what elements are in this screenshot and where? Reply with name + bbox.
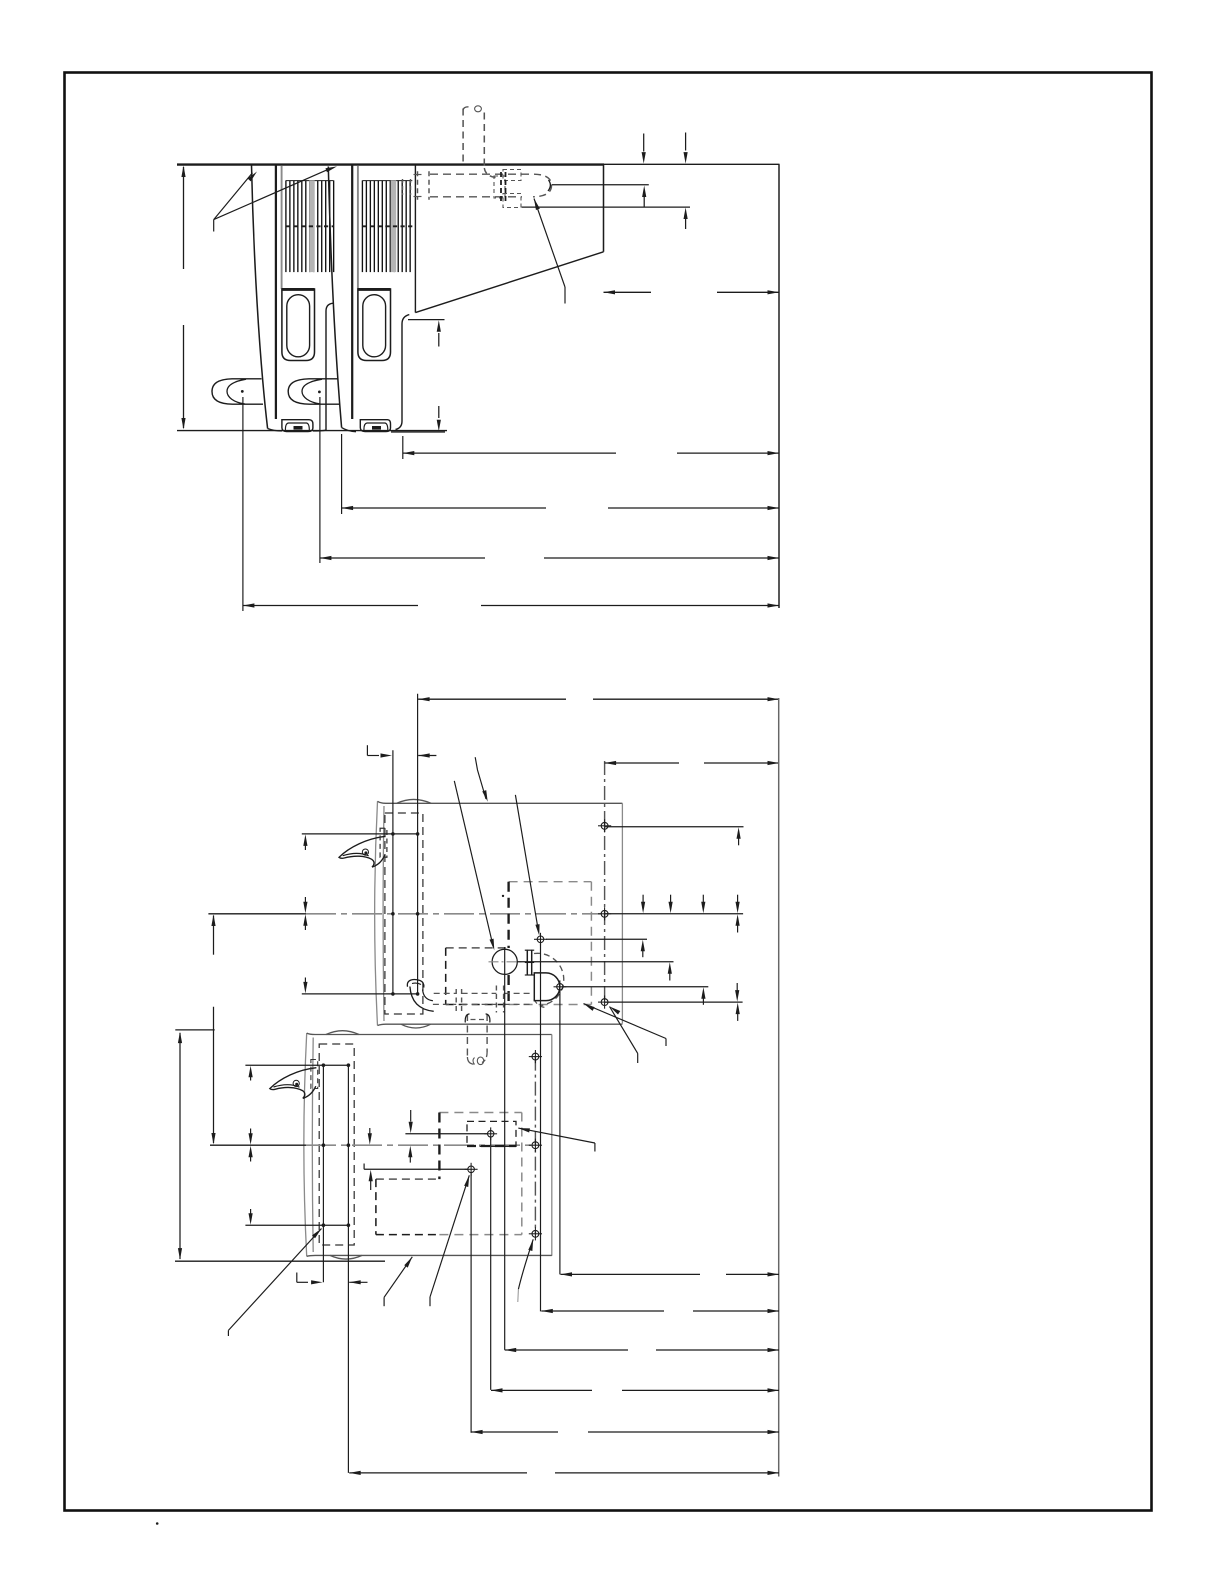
unit 2 lever pivots line (upper) bbox=[245, 1064, 348, 1066]
unit 2 plan bottom edge bbox=[307, 1254, 552, 1257]
leader arrows to both cooler tops bbox=[214, 173, 253, 220]
trap tailpipe hidden (dashed) below unit1 bbox=[466, 1014, 468, 1057]
tailpipe end fitting circles bbox=[473, 1058, 475, 1065]
cooler 1 push-pad recess outline bbox=[282, 289, 315, 361]
cooler 1 push-pad oval slot bbox=[287, 295, 310, 357]
unit 1 hood bump arc (top) bbox=[397, 799, 431, 803]
unit 2 plan outline left edge (curved) bbox=[304, 1033, 307, 1256]
depth dimension line 4 (cooler1 push-bar to wall) bbox=[243, 605, 418, 607]
cooler 1 panel edge line bbox=[275, 165, 277, 419]
leader to outlet box (from right) bbox=[518, 1128, 530, 1132]
bubbler height line (plan) bbox=[518, 961, 674, 963]
unit 1 lower access dashed rectangle bbox=[446, 947, 509, 949]
cooler 2 grille mid dashed line bbox=[363, 225, 413, 227]
cooler 2 push-pad recess outline bbox=[358, 289, 391, 361]
unit 2 horizontal centerline bbox=[210, 1144, 306, 1146]
supply tube left flange (dashed) bbox=[417, 171, 419, 199]
unit 1 lower pivot line bbox=[302, 993, 418, 995]
bottom dimension: water inlet to wall bbox=[541, 1310, 664, 1312]
unit 1 hood bump arc (bottom) bbox=[401, 1024, 431, 1028]
unit 2 mounting holes centerline (vertical dash-dot) bbox=[534, 1057, 536, 1234]
unit 2 back panel dashed rectangle bbox=[319, 1044, 354, 1245]
unit 1 bubbler body circle (plan) bbox=[492, 949, 517, 974]
bottom dimension: lever pivot to wall bbox=[349, 1472, 527, 1474]
arrow above lower pivot line bbox=[304, 978, 306, 985]
cooler 1 rear lower edge bbox=[326, 303, 333, 430]
extension line from water inlet down bbox=[540, 943, 542, 1311]
extension line from bubbler down bbox=[504, 947, 506, 1350]
riser pipe (hidden, dashed) above cooler bbox=[462, 109, 464, 163]
unit 2 lower pivot line bbox=[245, 1224, 348, 1226]
center-to-center vertical dimension bbox=[213, 916, 215, 955]
unit 1 horizontal centerline (dash-dot) bbox=[208, 913, 306, 915]
bottom dimension: outlet receptacle to wall bbox=[471, 1431, 558, 1433]
cabinet depth dimension line (upper right) bbox=[604, 291, 652, 293]
depth dimension line 1 (rear corner to wall) bbox=[403, 452, 616, 454]
water inlet height line bbox=[546, 938, 647, 940]
arrow above hole-bottom line bbox=[736, 983, 738, 992]
arrow above unit2 lower pivot line bbox=[250, 1209, 252, 1216]
outlet receptacle height line bbox=[364, 1168, 467, 1170]
cooler 2 rear cabinet edge vertical bbox=[414, 165, 416, 312]
water inlet hole bbox=[537, 936, 544, 943]
extension line from outlet box hole down bbox=[490, 1138, 492, 1390]
extension line from lever pivot B up bbox=[417, 694, 419, 994]
unit 2 plan right edge bbox=[551, 1035, 553, 1256]
unit 2 lower access dashed rectangle bbox=[376, 1178, 440, 1180]
cooler 2 cabinet sloped underside bbox=[415, 252, 603, 313]
floor/bottom reference line under coolers bbox=[177, 430, 447, 432]
leader to unit2 bottom mounting hole bbox=[528, 1239, 533, 1251]
unit 2 lever mount small dashed box bbox=[311, 1060, 318, 1089]
hole-bottom height line bbox=[605, 1001, 743, 1003]
bottom dimension: drain to wall bbox=[561, 1273, 701, 1275]
unit 1 mounting hole top bbox=[601, 822, 608, 829]
bottom dimension: outlet box hole to wall bbox=[491, 1389, 592, 1391]
right reference line (wall) for plan dims bbox=[778, 698, 780, 1477]
unit 2 plan inner left line bbox=[311, 1038, 314, 1253]
cooler 2 push-bar pivot dot bbox=[318, 391, 321, 394]
arrows at left for outlet dim bbox=[369, 1128, 371, 1135]
dimension arrow above top line at valve bbox=[685, 133, 687, 151]
unit 1 centerline dots bbox=[391, 912, 395, 916]
extension line from unit2 lever pivot A down bbox=[322, 1065, 324, 1282]
supply elbow bell cap bbox=[407, 980, 424, 988]
front face of upper cabinet (side view) bbox=[603, 165, 605, 252]
arrow below hole-bottom line bbox=[736, 1003, 740, 1015]
trap drain flange D-outline bbox=[534, 973, 560, 1001]
rear flange fitting (dashed, behind grille) bbox=[402, 179, 404, 195]
unit 1 plan top edge bbox=[378, 801, 623, 803]
leader to bubbler bbox=[454, 781, 493, 947]
cooler 1 push-bar pivot dot bbox=[241, 390, 244, 393]
arrow below unit2 lever line bbox=[249, 1066, 253, 1078]
extension line from lever pivot A up bbox=[392, 750, 394, 994]
cooler 2 rear band (grey) bbox=[391, 180, 397, 272]
leader to trap bbox=[584, 1004, 595, 1011]
cooler 2 bubbler push-bar (side view) bbox=[288, 379, 339, 404]
unit 2 height top tick bbox=[175, 1029, 214, 1031]
extension line from unit2 lever pivot B down bbox=[347, 1065, 349, 1473]
arrows above unit1 centerline bbox=[642, 895, 644, 904]
unit 2 centerline dots bbox=[322, 1143, 326, 1147]
bubbler crosshair dash-dot bbox=[489, 961, 522, 963]
wall / top reference line of coolers (side view) bbox=[177, 163, 604, 165]
unit 1 mounting hole middle bbox=[601, 910, 608, 917]
cooler 1 louver grille bbox=[285, 180, 287, 272]
leader to outlet receptacle hole bbox=[464, 1175, 469, 1187]
hole-top height line bbox=[605, 826, 744, 828]
cooler 2 front-edge band seen through cooler1 grille (grey) bbox=[309, 180, 315, 272]
arrow below lever line bbox=[303, 834, 307, 846]
bubbler supply tube (hidden, dashed stadium) bbox=[430, 173, 534, 175]
unit 1 push lever (plan view) bbox=[339, 836, 386, 867]
extension line below cooler2 rear corner bbox=[402, 436, 404, 459]
unit 2 hood bump arc (top) bbox=[326, 1031, 359, 1035]
extension line below cooler2 front bbox=[341, 434, 343, 514]
leader to water inlet hole bbox=[515, 795, 538, 932]
outlet box height line bbox=[405, 1133, 487, 1135]
lower cabinet height dimension (right of cooler2) bbox=[408, 319, 445, 321]
unit 1 mounting holes centerline (vertical dash-dot) bbox=[604, 761, 606, 1002]
unit 1 wall opening dashed rectangle bbox=[509, 881, 592, 883]
supply piping hidden lines (dashed) bbox=[434, 992, 457, 994]
riser pipe top fitting circle bbox=[475, 106, 482, 112]
extension line from cooler2 push-bar down to dim bbox=[319, 397, 321, 563]
unit 2 hood bump arc (bottom) bbox=[330, 1255, 362, 1259]
extension line from outlet receptacle down bbox=[470, 1173, 472, 1433]
extension line from drain down bbox=[559, 991, 561, 1275]
leader to regulator assembly bbox=[534, 199, 540, 211]
drain height line bbox=[563, 986, 708, 988]
unit 2 height dimension line (far left) bbox=[179, 1033, 181, 1259]
unit 1 plan right edge bbox=[621, 803, 623, 1023]
lever pivot offset dimension (above unit1) bbox=[366, 745, 368, 755]
cooler 2 panel edge line bbox=[351, 165, 353, 419]
cooler 2 louver grille bbox=[361, 180, 363, 272]
cooler 2 front curved edge (side view) bbox=[328, 167, 341, 428]
cooler 2 foot bbox=[360, 420, 390, 432]
arrow below unit1 centerline bbox=[736, 914, 740, 926]
arrows at unit2 centerline (left) bbox=[250, 1129, 252, 1136]
cooler 1 bubbler push-bar (side view) bbox=[212, 379, 263, 404]
bottom dimension: bubbler to wall bbox=[505, 1349, 628, 1351]
unit 2 mounting hole bottom bbox=[532, 1230, 539, 1237]
bubbler height line bbox=[552, 184, 649, 186]
overall height dimension line (left) bbox=[183, 167, 185, 269]
bottom reference line of unit 2 bbox=[175, 1260, 385, 1262]
unit 1 plan outline left edge (curved) bbox=[375, 801, 378, 1025]
stray dot lower left bbox=[156, 1522, 159, 1525]
unit 1 plan inner left line bbox=[382, 806, 385, 1021]
extension line from cooler1 push-bar down to dim bbox=[242, 397, 244, 611]
depth dimension line 3 (cooler2 push-bar to wall) bbox=[320, 557, 485, 559]
dimension arrow below bubbler height line bbox=[642, 186, 646, 198]
arrow above outlet box line bbox=[410, 1110, 412, 1122]
arrow below hole-top line bbox=[737, 827, 741, 839]
trap body hidden arc (dashed) bbox=[534, 953, 564, 1005]
cooler 2 rear lower cabinet corner bbox=[396, 315, 410, 430]
riser elbow into bubbler supply (dashed) bbox=[484, 168, 497, 178]
valve height line bbox=[522, 206, 690, 208]
leader to unit2 bottom edge bbox=[404, 1257, 412, 1268]
arrows around unit2 centerline at x410 bbox=[408, 1146, 412, 1158]
cooler 1 grille mid dashed line bbox=[286, 225, 334, 227]
unit 2 electrical outlet box (dashed) bbox=[467, 1121, 516, 1146]
regulator / valve detail (hidden, dashed) bbox=[494, 176, 505, 198]
unit 1 plan bottom edge bbox=[378, 1024, 623, 1025]
unit 2 lever pivot offset dimension (below) bbox=[296, 1273, 298, 1283]
top dimension line: lever pivot B to wall bbox=[418, 698, 566, 700]
unit 2 mounting hole top bbox=[532, 1053, 539, 1060]
cooler 2 bottom edge bbox=[342, 428, 356, 432]
trap slip-joint flange bbox=[526, 950, 528, 976]
stray ink dot bbox=[502, 895, 504, 897]
unit 2 wall opening dashed rectangle bbox=[439, 1112, 521, 1114]
cooler 1 panel inner grey line bbox=[281, 166, 283, 290]
unit 1 mounting hole bottom bbox=[601, 999, 608, 1006]
leader to hole-bottom bbox=[610, 1007, 621, 1015]
drain outlet hole bbox=[557, 984, 563, 990]
depth dimension line 2 (cooler2 front to wall) bbox=[342, 507, 546, 509]
leader to unit1 top edge bbox=[475, 757, 486, 799]
cooler 2 panel inner grey line bbox=[357, 166, 359, 290]
unit 2 push lever (plan view) bbox=[270, 1068, 317, 1099]
outlet box knockout hole bbox=[488, 1131, 494, 1137]
unit 1 lever pivots line (upper) bbox=[302, 833, 418, 835]
outlet receptacle hole bbox=[468, 1166, 475, 1173]
unit 2 plan top edge bbox=[307, 1033, 552, 1034]
dimension arrow below valve height line bbox=[684, 208, 688, 220]
wall face vertical line (side view right) bbox=[778, 164, 780, 608]
unit 1 lever mount small dashed box bbox=[380, 828, 387, 857]
cooler 1 front curved edge (side view) bbox=[252, 165, 268, 428]
tailpipe hub slip nut arcs bbox=[465, 1014, 469, 1023]
leader to unit2 lower pivot dot bbox=[312, 1229, 321, 1239]
cooler 1 foot bbox=[282, 420, 313, 432]
unit 1 back panel dashed rectangle bbox=[385, 813, 423, 1014]
cooler 2 push-pad oval slot bbox=[363, 295, 386, 357]
dimension arrow above top line at bubbler bbox=[643, 134, 645, 152]
cooler 1 bottom edge bbox=[268, 429, 282, 432]
arrows at unit1 centerline (left) bbox=[304, 897, 306, 904]
bubbler tip solid mark bbox=[548, 180, 550, 191]
unit1 centerline dimension extension (right) bbox=[605, 913, 744, 915]
supply elbow (plan) bbox=[410, 987, 434, 1012]
dimension line: hole centerline to wall bbox=[605, 762, 679, 764]
unit 2 mounting hole middle bbox=[532, 1142, 539, 1149]
